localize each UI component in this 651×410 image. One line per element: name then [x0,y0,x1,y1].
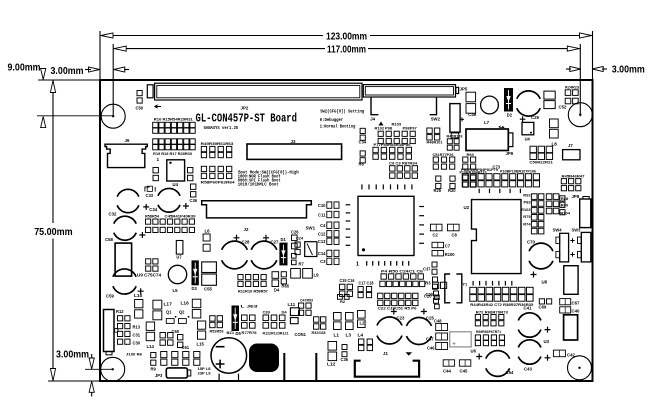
capacitor C32 [117,189,149,212]
label C26 [291,230,299,235]
capacitor C58 [114,216,146,240]
label R19 R18 R17 R28 R30 [153,151,193,156]
svg-text:R52R53: R52R53 [210,329,225,334]
svg-text:CON1: CON1 [295,332,307,337]
label C22 C19 C51 R5 P6 [378,305,418,310]
dimension text 3.00mm top-right [612,65,645,76]
label U3 [544,339,550,344]
label C60 [172,329,180,334]
label L4 [358,333,364,339]
text boot mode line2 [238,174,281,179]
label C31 [133,333,141,338]
label R24R23 [565,84,580,89]
label R52R53 [210,329,225,334]
label pin 1 [356,262,359,268]
capacitor C70 [529,243,553,277]
capacitor C41 [518,313,550,337]
label C10 [318,203,326,208]
capacitor C14 pads [327,250,339,256]
dimension 117.00mm left arrow [114,46,126,51]
dimension 75.00mm vertical line [52,80,54,223]
label R103 top [392,122,402,127]
svg-text:R88: R88 [561,196,569,201]
svg-text:C47: C47 [426,337,434,342]
top-left hole center extension line [37,115,113,117]
connector J7 [563,150,580,160]
diode D2 [504,88,513,112]
label U4 [173,182,179,187]
capacitor C47 pads [436,333,448,340]
dimension 3.00mm top-left right-pointing arrow [89,67,100,72]
label C47 [426,337,434,342]
label C58 [105,237,113,242]
capacitor C28 [222,235,248,269]
transistor Q2 [179,316,190,324]
svg-text:3.00mm: 3.00mm [612,65,645,76]
svg-text:L6: L6 [205,229,211,234]
svg-text:R72 R68R70R73: R72 R68R70R73 [476,310,509,315]
label R102 with arrow [379,122,384,126]
plus mark C29 [520,116,526,122]
capacitor C2 pads [430,224,442,231]
svg-text:C7: C7 [445,244,451,249]
mounting hole top-left [101,104,125,128]
svg-text:D4: D4 [282,310,288,315]
label L J63 [241,304,259,309]
label R11 R10 R58R57 [238,288,269,293]
label D2 [507,113,513,118]
svg-text:R24R23: R24R23 [565,84,580,89]
label R56P60P62R64 [201,180,236,185]
svg-text:R13: R13 [133,325,141,330]
buzzer BZ1 [211,338,247,381]
label U8 [542,280,548,285]
svg-text:R90: R90 [561,202,569,207]
svg-text:3.00mm: 3.00mm [51,66,84,77]
label C70 [527,240,535,245]
svg-text:C47R53: C47R53 [300,298,314,303]
svg-text:R12: R12 [116,309,124,314]
svg-text:R16 R15R54R29R31: R16 R15R54R29R31 [154,117,194,122]
svg-text:R19 R18 R17 R28R30: R19 R18 R17 R28R30 [153,151,193,156]
resistor array R11 R10 R58 R57 pads [238,275,266,287]
label C20 [424,294,432,299]
dimension text 3.00mm bottom-left [56,349,89,360]
capacitor C52 pads [544,91,555,109]
label P77P85R84R45P86 [374,142,412,147]
capacitor C23 [377,309,402,345]
svg-text:C36: C36 [190,198,198,203]
IC U1 QFP body [358,196,414,255]
svg-text:U3: U3 [544,339,550,344]
svg-text:SW2(CFG[0]) Setting: SW2(CFG[0]) Setting [320,108,364,114]
label L17 [164,302,173,308]
svg-text:0:Debugger: 0:Debugger [320,117,343,123]
svg-text:R25: R25 [434,188,442,193]
resistor R100 pads [432,251,444,256]
label C50 [136,106,144,111]
label C42 [567,353,575,358]
label C48 [434,319,442,324]
svg-text:C14: C14 [318,251,326,256]
capacitor C69 pads [539,299,551,304]
svg-text:D3: D3 [192,286,198,291]
label R102 [375,126,385,131]
label D5 [236,331,242,336]
mark on R12 [114,329,118,333]
svg-text:75.00mm: 75.00mm [34,227,72,238]
svg-text:R11R10 R58R57: R11R10 R58R57 [238,288,269,293]
text boot mode line3 [238,178,281,183]
resistor array R45R46R47 pads [561,179,581,191]
dimension 117.00mm extension line left [112,44,114,116]
label L11 [288,302,296,307]
svg-text:C8: C8 [452,233,458,238]
capacitor C24 pads [295,242,300,255]
dimension text 123.00mm [326,31,367,42]
svg-text:C10: C10 [318,203,326,208]
svg-text:C52: C52 [559,105,567,110]
svg-text:R7: R7 [299,262,305,267]
mounting hole top-right [568,103,592,127]
svg-text:L10: L10 [134,293,143,299]
arrow mark above L7 [499,126,505,128]
pads R69 grid [475,335,504,346]
svg-text:J7: J7 [568,143,573,148]
label C34 [149,207,157,212]
label C34 top [359,140,367,145]
label U4 right [525,137,531,142]
connector J4 outline [371,97,437,115]
inductor L16 pads [192,299,201,318]
plus mark near SW3 [570,252,574,256]
svg-text:R69R66P67R71: R69R66P67R71 [476,329,502,334]
label C2 [433,233,439,238]
svg-text:JP2: JP2 [241,106,249,111]
resistor row pads below C32 [146,219,195,233]
capacitor pads near C20 [433,282,447,288]
label D4 right [282,310,288,315]
pads row2 below QFP [380,281,425,286]
pads C51 grid [433,157,455,169]
label C41 [524,306,532,311]
label C52 [559,105,567,110]
svg-text:J100 R6: J100 R6 [126,352,143,357]
capacitor C48 pads [436,324,448,331]
svg-text:L1: L1 [334,333,340,339]
inductor L10 pads [135,300,143,319]
diode D3 [192,260,199,285]
svg-text:L7: L7 [484,120,490,125]
svg-text:R3: R3 [425,281,431,286]
svg-text:C28: C28 [242,240,250,245]
label R20 [448,188,456,193]
label SW4 [553,228,563,233]
dimension 75.00mm bottom arrow [50,369,55,381]
dimension text 117.00mm [327,45,366,56]
label Q1 [166,310,172,315]
svg-text:D2: D2 [507,113,513,118]
label JP3 [155,373,163,378]
label R8 [359,162,365,167]
label P98 [385,126,393,131]
capacitor C42 pads [553,350,565,357]
label R65 [282,283,290,288]
pads right of U4 [188,168,193,181]
svg-text:R122R123R121: R122R123R121 [263,331,290,336]
label C37 [423,267,431,272]
label C36 [190,198,198,203]
svg-text:P98P97: P98P97 [403,126,418,131]
component U5 black body [249,344,279,373]
label C50R22R21 [529,159,553,164]
label R45R46R47 [562,173,586,178]
label Y1 [462,282,468,287]
svg-text:C11: C11 [318,212,326,217]
resistor R9 pads [151,353,156,366]
capacitor C35 pads [342,345,347,357]
svg-text:J2: J2 [244,227,249,232]
text SW2 setting note [320,108,364,114]
label J1 [383,351,388,356]
capacitor C15 C16 pads [340,284,353,296]
label C32 [109,211,117,216]
resistor array R16 R15 R54 R29 R31 labels [154,117,194,122]
capacitor C40 pads [560,307,571,313]
svg-text:R103: R103 [392,122,402,127]
label R88 [561,196,569,201]
svg-text:C58: C58 [105,237,113,242]
svg-text:C3: C3 [320,259,326,264]
label R48R101 [427,140,444,145]
resistor grid right of U2 col1 [531,194,543,234]
connector JP3 [166,368,187,378]
resistor R52R53 pads [210,316,223,328]
dimension 3.00mm top-right left arrow [570,66,581,71]
resistor R8 pads [360,151,365,163]
transistor D4 pads [272,272,279,287]
resistor grid below J4 [378,131,415,143]
crystal Y1 bracket [445,274,462,303]
svg-text:L14: L14 [147,344,155,349]
capacitor C13 pads [327,238,339,244]
svg-text:C23: C23 [397,316,405,321]
label C40 [572,309,580,314]
label L1 [334,333,340,339]
capacitor C12 pads [327,231,339,237]
svg-text:U7: U7 [176,255,182,260]
svg-text:L5: L5 [173,288,179,293]
capacitor C25 [407,309,432,345]
svg-text:R65: R65 [282,283,290,288]
svg-text:C17 C18: C17 C18 [359,281,375,286]
label C29 [531,115,539,120]
IC U8 [564,266,578,295]
svg-text:117.00mm: 117.00mm [327,45,366,56]
label C20 bottom [426,292,434,297]
label R56R54 [145,214,160,219]
label C45 [460,369,468,374]
pads rows above U2 [462,174,539,187]
svg-text:C12: C12 [318,232,326,237]
dimension 9.00mm top arrow [41,69,46,80]
svg-text:JP3: JP3 [155,373,163,378]
pads cluster mid-bottom [378,293,418,305]
label R90 [561,202,569,207]
svg-text:C45R41P40R39: C45R41P40R39 [165,214,197,219]
capacitor C43 [518,340,550,364]
IC U1 right pins [419,207,424,244]
label J100 R6 [126,352,143,357]
inductor L14 pads [146,322,154,341]
label BZ1 [227,330,235,335]
svg-text:P98: P98 [385,126,393,131]
svg-text:C29: C29 [531,115,539,120]
capacitor pads near L11 [299,303,312,315]
svg-text:J4: J4 [370,116,375,121]
capacitor C34 big [158,188,189,212]
label R44R43R42 C72 R38R37R36R35 [470,302,534,307]
connector J6 [105,144,147,167]
svg-text:R104: R104 [560,210,570,215]
svg-text:R49R39R61R63: R49R39R61R63 [201,141,235,146]
svg-text:J1: J1 [383,351,388,356]
capacitor C11 pads [327,211,339,217]
resistor R65 pads [281,272,286,284]
svg-text:P77P85R84R45P86: P77P85R84R45P86 [374,142,412,147]
resistor R32C68 pads [314,317,326,329]
label U7 [176,255,182,260]
label R32C68 [312,330,327,335]
label C73 [493,165,501,170]
plus in gray box [453,342,456,345]
diode D1 [279,243,287,266]
capacitor C10 pads [327,202,339,208]
dimension 117.00mm horizontal line [113,48,325,50]
capacitor C50 [137,91,142,104]
IC U1 bottom pins [367,261,409,266]
label C30 [133,341,141,346]
svg-text:Y1: Y1 [462,282,468,287]
label L14 [147,344,155,349]
connector JP8 [580,199,591,228]
label U6 [471,349,477,354]
svg-text:C59: C59 [106,294,114,299]
resistor array R49R39R61R63 label [201,141,235,146]
label C43 [524,367,532,372]
text boot mode line4 [238,182,279,187]
svg-text:3.00mm: 3.00mm [56,349,89,360]
connector J2 [202,201,312,218]
connector JP5 long header [363,85,455,97]
svg-text:C40: C40 [572,309,580,314]
label D4 [274,287,280,292]
label C39 [263,310,271,315]
svg-text:SW2: SW2 [431,117,441,122]
inductor L6 pads [203,234,210,251]
svg-text:R100: R100 [445,252,456,257]
dimension 3.00mm top-left left-pointing arrow [114,67,125,72]
plus mark near SW4 [570,238,574,242]
label L12 [327,362,336,368]
dimension 123.00mm extension line left [99,31,101,80]
label L9 [314,273,320,278]
svg-text:P10BR10BR110: P10BR10BR110 [460,170,488,175]
label R69R66P67R71 [476,329,502,334]
edge connector pin left [283,353,285,381]
label L2 [360,321,366,326]
pads R60 grid [463,157,476,169]
capacitor C26 pads [292,235,298,249]
label C54 [506,370,514,375]
svg-text:C26: C26 [291,230,299,235]
switch SW3 [581,232,591,262]
label R77R78 [242,330,258,335]
label C44 [443,369,451,374]
svg-text:C70: C70 [527,240,535,245]
label C9 C3 R87R34 [389,160,418,165]
svg-text:C13: C13 [318,239,326,244]
label C14 [318,251,326,256]
dimension text 9.00mm [8,63,41,74]
svg-text:C45: C45 [460,369,468,374]
svg-text:C50: C50 [136,106,144,111]
regulator U9 body [115,243,132,276]
svg-text:JP8: JP8 [572,194,580,199]
pads row below QFP [381,274,423,279]
svg-text:C15 C16: C15 C16 [340,278,356,283]
capacitor C75 C74 pads [146,259,158,271]
label J2 [244,227,249,232]
svg-text:R47R103: R47R103 [447,134,464,139]
resistor array second row pads [153,139,196,150]
svg-text:R58R54: R58R54 [145,214,160,219]
svg-text:P4 R50 C24C1 C6: P4 R50 C24C1 C6 [381,269,424,274]
svg-text:R45R46R47: R45R46R47 [562,173,586,178]
svg-text:R60: R60 [467,152,475,157]
svg-text:15P L8: 15P L8 [198,367,211,371]
svg-text:R9: R9 [151,367,157,372]
label R60 [467,152,475,157]
resistor R3 pads [433,277,438,289]
svg-text:C37: C37 [423,267,431,272]
IC U4 top [167,160,185,181]
svg-text:D1: D1 [281,237,287,242]
svg-text:L J63: L J63 [241,304,259,309]
label C23 [397,316,405,321]
label R13 [133,325,141,330]
svg-text:123.00mm: 123.00mm [326,31,367,42]
label C28 [242,240,250,245]
svg-text:L2: L2 [360,321,366,326]
svg-text:C67: C67 [572,301,580,306]
svg-text:9.00mm: 9.00mm [8,63,41,74]
svg-text:C31: C31 [133,333,141,338]
svg-text:L11: L11 [288,302,296,307]
label J7 [568,143,573,148]
resistor cluster C50R22R21 [530,146,553,159]
label C8 [452,233,458,238]
svg-text:R8: R8 [359,162,365,167]
label C51R77P26 [433,152,455,157]
label R100 [445,252,456,257]
label L15 [197,342,205,347]
capacitor C37 pads [432,262,437,274]
svg-text:C50R22R21: C50R22R21 [529,159,553,164]
board outline [100,80,593,381]
label CON1 [295,332,307,337]
svg-text:L12: L12 [327,362,336,368]
